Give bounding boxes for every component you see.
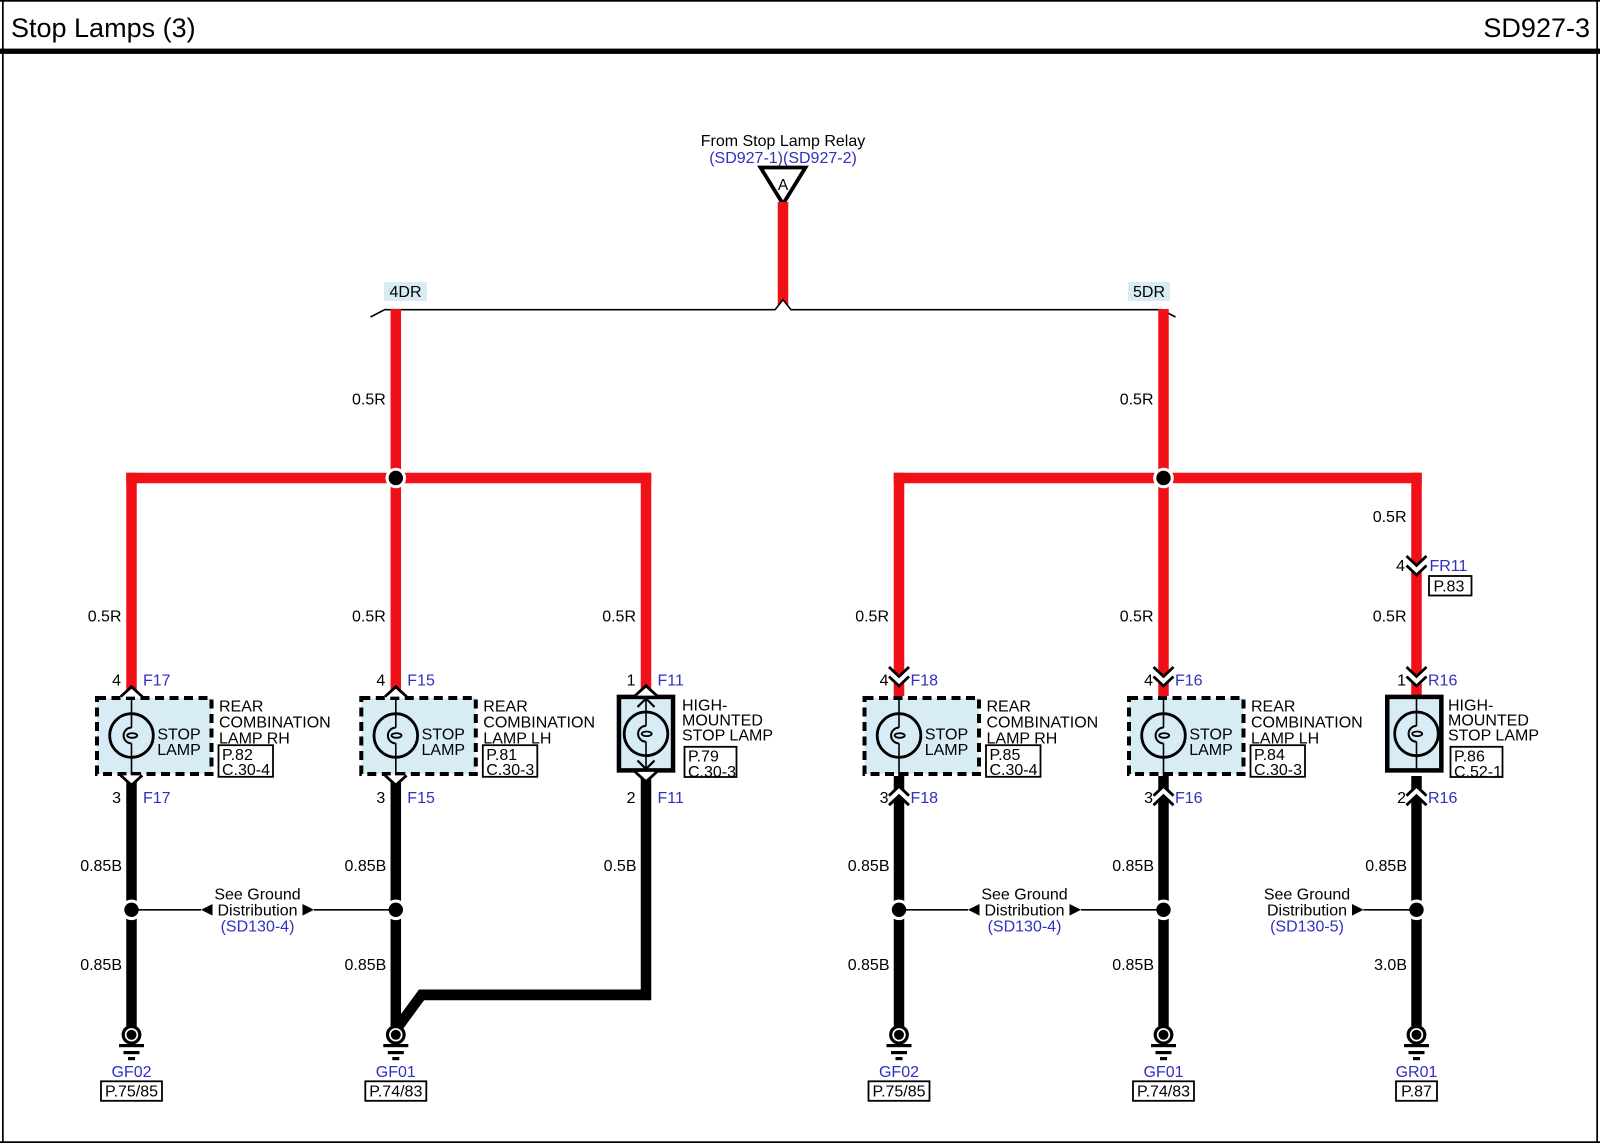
wire 0.85B F16 to ground GF01: [1158, 776, 1169, 1026]
svg-text:3.0B: 3.0B: [1374, 957, 1407, 974]
connector symbol F18 pin 3 (in-line): [889, 786, 909, 805]
svg-text:1: 1: [1397, 673, 1406, 690]
svg-text:C.30-3: C.30-3: [486, 762, 534, 779]
svg-text:GF01: GF01: [1143, 1064, 1183, 1081]
svg-text:2: 2: [1397, 790, 1406, 807]
svg-text:0.5R: 0.5R: [602, 609, 636, 626]
svg-text:3: 3: [112, 790, 121, 807]
svg-text:3: 3: [376, 790, 385, 807]
note See Ground Distribution SD130-4: [137, 887, 391, 936]
svg-text:R16: R16: [1428, 673, 1457, 690]
svg-text:GF01: GF01: [376, 1064, 416, 1081]
connector symbol F15 pin 4: [385, 687, 407, 697]
ground GF01: [1151, 1027, 1176, 1061]
relay source triangle A: [761, 168, 806, 205]
svg-text:REAR: REAR: [219, 699, 263, 716]
svg-text:3: 3: [880, 790, 889, 807]
wire 0.5R to F16 pin 4: [1158, 478, 1169, 696]
svg-text:1: 1: [627, 673, 636, 690]
label page box P.81: [483, 745, 538, 779]
svg-text:See Ground: See Ground: [1264, 887, 1350, 904]
svg-text:C.30-4: C.30-4: [222, 762, 270, 779]
wire 0.5R to F11 pin 1: [641, 473, 652, 695]
svg-text:STOP: STOP: [422, 727, 465, 744]
svg-text:0.85B: 0.85B: [80, 858, 122, 875]
node junction dot GF02 branch right: [889, 900, 910, 921]
label 4DR: [384, 282, 427, 301]
svg-text:5DR: 5DR: [1133, 284, 1165, 301]
svg-text:A: A: [778, 177, 789, 194]
svg-text:0.5B: 0.5B: [604, 858, 637, 875]
svg-text:(SD927-1)(SD927-2): (SD927-1)(SD927-2): [709, 150, 857, 167]
svg-text:4: 4: [1144, 673, 1153, 690]
ground GF02: [887, 1027, 912, 1061]
svg-text:0.5R: 0.5R: [1120, 392, 1154, 409]
connector symbol F16 pin 4 (in-line): [1154, 667, 1174, 686]
label REAR COMBINATION LAMP RH (F18): [987, 699, 1099, 748]
svg-text:P.83: P.83: [1434, 579, 1465, 596]
lamp F18 REAR COMBINATION LAMP RH: [865, 696, 980, 776]
svg-text:C.30-3: C.30-3: [1254, 762, 1302, 779]
svg-text:0.5R: 0.5R: [88, 609, 122, 626]
svg-text:STOP LAMP: STOP LAMP: [1448, 728, 1539, 745]
svg-text:0.5R: 0.5R: [352, 392, 386, 409]
label HIGH-MOUNTED STOP LAMP (F11): [682, 698, 773, 745]
lamp F11 HIGH-MOUNTED STOP LAMP: [619, 695, 673, 772]
svg-text:3: 3: [1144, 790, 1153, 807]
svg-text:C.30-4: C.30-4: [990, 762, 1038, 779]
connector symbol F17 pin 3: [121, 775, 143, 785]
svg-text:C.30-3: C.30-3: [688, 764, 736, 781]
svg-text:GR01: GR01: [1396, 1064, 1438, 1081]
svg-text:0.5R: 0.5R: [855, 609, 889, 626]
wire 0.5R 4DR drop to bus: [391, 309, 402, 478]
label ground page P.87: [1396, 1081, 1437, 1101]
lamp F16 REAR COMBINATION LAMP LH: [1129, 696, 1244, 776]
svg-text:4: 4: [1396, 558, 1405, 575]
svg-text:0.85B: 0.85B: [344, 858, 386, 875]
wire 0.85B/3.0B R16 to ground GR01: [1411, 776, 1422, 1026]
connector symbol F18 pin 4 (in-line): [889, 667, 909, 686]
svg-text:0.5R: 0.5R: [1120, 609, 1154, 626]
connector symbol F17 pin 4: [121, 687, 143, 697]
wire 0.5R to F17 pin 4: [126, 473, 137, 696]
svg-text:F11: F11: [658, 673, 684, 690]
svg-text:F16: F16: [1175, 790, 1203, 807]
wire red from relay triangle: [778, 202, 789, 310]
label REAR COMBINATION LAMP LH (F15): [483, 699, 595, 748]
connector symbol F11 pin 2: [635, 772, 657, 782]
svg-text:Distribution: Distribution: [217, 903, 297, 920]
svg-text:F17: F17: [143, 790, 171, 807]
wire 0.5R to R16 pin 1 via FR11: [1411, 473, 1422, 695]
label page box P.84: [1251, 745, 1306, 779]
label ground page P.74/83: [1133, 1081, 1194, 1101]
svg-text:Distribution: Distribution: [1267, 903, 1347, 920]
wire 0.85B F17 to ground GF02: [126, 776, 137, 1026]
connector symbol F11 pin 1: [635, 686, 657, 696]
note See Ground Distribution SD130-4: [904, 887, 1159, 936]
svg-text:0.85B: 0.85B: [344, 957, 386, 974]
svg-text:GF02: GF02: [879, 1064, 919, 1081]
node junction dot GF01 branch: [386, 900, 407, 921]
label 5DR: [1128, 282, 1170, 301]
label FR11 page P.83: [1429, 576, 1472, 596]
svg-text:(SD130-4): (SD130-4): [221, 919, 295, 936]
svg-text:REAR: REAR: [987, 699, 1031, 716]
wire 0.5R to F15 pin 4: [391, 478, 402, 696]
node junction dot GR01 branch: [1406, 900, 1427, 921]
svg-text:SD927-3: SD927-3: [1483, 13, 1590, 43]
wire red bus right (F18-F16-R16): [894, 473, 1422, 484]
label page box P.85: [986, 745, 1041, 779]
svg-text:0.85B: 0.85B: [1112, 957, 1154, 974]
svg-text:STOP: STOP: [157, 727, 200, 744]
wire 0.5R to F18 pin 4: [894, 473, 905, 696]
wire 0.5R 5DR drop to bus: [1158, 309, 1169, 478]
lamp R16 HIGH-MOUNTED STOP LAMP: [1387, 695, 1441, 772]
svg-text:P.74/83: P.74/83: [369, 1084, 422, 1101]
svg-text:F18: F18: [911, 790, 939, 807]
svg-text:0.5R: 0.5R: [1373, 609, 1407, 626]
connector symbol R16 pin 1 (in-line): [1407, 667, 1427, 686]
svg-text:F15: F15: [407, 673, 435, 690]
label ground page P.74/83: [365, 1081, 426, 1101]
note See Ground Distribution SD130-5: [1264, 887, 1412, 936]
svg-text:0.5R: 0.5R: [1373, 509, 1407, 526]
svg-text:P.74/83: P.74/83: [1137, 1084, 1190, 1101]
connector FR11 in-line joint: [1407, 556, 1427, 575]
wire 0.85B F15 to ground GF01: [391, 776, 402, 1026]
svg-text:0.85B: 0.85B: [1365, 858, 1407, 875]
svg-text:STOP: STOP: [925, 727, 968, 744]
svg-text:4: 4: [112, 673, 121, 690]
label REAR COMBINATION LAMP RH (F17): [219, 699, 331, 748]
svg-text:LAMP: LAMP: [157, 742, 201, 759]
svg-text:F18: F18: [911, 673, 939, 690]
ground GR01: [1404, 1027, 1429, 1061]
svg-text:(SD130-4): (SD130-4): [988, 919, 1062, 936]
svg-text:GF02: GF02: [111, 1064, 151, 1081]
node junction dot GF02 branch: [121, 900, 142, 921]
svg-text:0.85B: 0.85B: [1112, 858, 1154, 875]
svg-text:4: 4: [376, 673, 385, 690]
node junction dot GF01 branch right: [1153, 900, 1174, 921]
label From Stop Lamp Relay: [701, 133, 866, 167]
label HIGH-MOUNTED STOP LAMP (R16): [1448, 698, 1539, 745]
svg-text:Distribution: Distribution: [984, 903, 1064, 920]
svg-text:F16: F16: [1175, 673, 1203, 690]
label REAR COMBINATION LAMP LH (F16): [1251, 699, 1363, 748]
svg-text:P.87: P.87: [1401, 1084, 1432, 1101]
label ground page P.75/85: [869, 1081, 930, 1101]
svg-text:From Stop Lamp Relay: From Stop Lamp Relay: [701, 133, 866, 150]
node junction dot red 5DR bus: [1153, 468, 1174, 489]
ground GF02: [119, 1027, 144, 1061]
svg-text:COMBINATION: COMBINATION: [1251, 715, 1363, 732]
ground GF01: [383, 1027, 408, 1061]
svg-text:STOP LAMP: STOP LAMP: [682, 728, 773, 745]
svg-text:F15: F15: [407, 790, 435, 807]
connector symbol R16 pin 2 (in-line): [1407, 786, 1427, 805]
svg-text:REAR: REAR: [483, 699, 527, 716]
svg-text:Stop Lamps (3): Stop Lamps (3): [11, 13, 196, 43]
wire red bus left (F17-F15-F11): [126, 473, 651, 484]
connector symbol F15 pin 3: [385, 775, 407, 785]
svg-text:R16: R16: [1428, 790, 1457, 807]
svg-text:F11: F11: [658, 790, 684, 807]
svg-text:(SD130-5): (SD130-5): [1270, 919, 1344, 936]
svg-text:C.52-1: C.52-1: [1454, 764, 1502, 781]
wire 0.5B F11 merge into GF01 wire: [391, 776, 651, 1034]
wire 0.85B F18 to ground GF02: [894, 776, 905, 1026]
label ground page P.75/85: [101, 1081, 162, 1101]
svg-text:4DR: 4DR: [389, 284, 421, 301]
connector symbol F16 pin 3 (in-line): [1154, 786, 1174, 805]
svg-text:LAMP: LAMP: [422, 742, 466, 759]
svg-text:F17: F17: [143, 673, 171, 690]
svg-text:See Ground: See Ground: [981, 887, 1067, 904]
svg-text:STOP: STOP: [1189, 727, 1232, 744]
lamp F15 REAR COMBINATION LAMP LH: [361, 696, 476, 776]
svg-text:0.85B: 0.85B: [848, 858, 890, 875]
svg-text:P.75/85: P.75/85: [105, 1084, 158, 1101]
lamp F17 REAR COMBINATION LAMP RH: [97, 696, 212, 776]
label page box P.79: [685, 747, 737, 781]
svg-text:COMBINATION: COMBINATION: [219, 715, 331, 732]
label page box P.82: [219, 745, 274, 779]
svg-text:0.85B: 0.85B: [80, 957, 122, 974]
label page box P.86: [1451, 747, 1503, 781]
node junction dot red 4DR bus: [386, 468, 407, 489]
svg-text:LAMP: LAMP: [1189, 742, 1233, 759]
svg-text:0.85B: 0.85B: [848, 957, 890, 974]
svg-text:See Ground: See Ground: [214, 887, 300, 904]
svg-text:4: 4: [880, 673, 889, 690]
svg-text:REAR: REAR: [1251, 699, 1295, 716]
svg-text:0.5R: 0.5R: [352, 609, 386, 626]
node branch split 4DR/5DR: [371, 299, 1176, 317]
svg-text:FR11: FR11: [1430, 558, 1468, 575]
svg-text:2: 2: [627, 790, 636, 807]
svg-text:COMBINATION: COMBINATION: [987, 715, 1099, 732]
svg-text:P.75/85: P.75/85: [872, 1084, 925, 1101]
svg-text:LAMP: LAMP: [925, 742, 969, 759]
svg-text:COMBINATION: COMBINATION: [483, 715, 595, 732]
